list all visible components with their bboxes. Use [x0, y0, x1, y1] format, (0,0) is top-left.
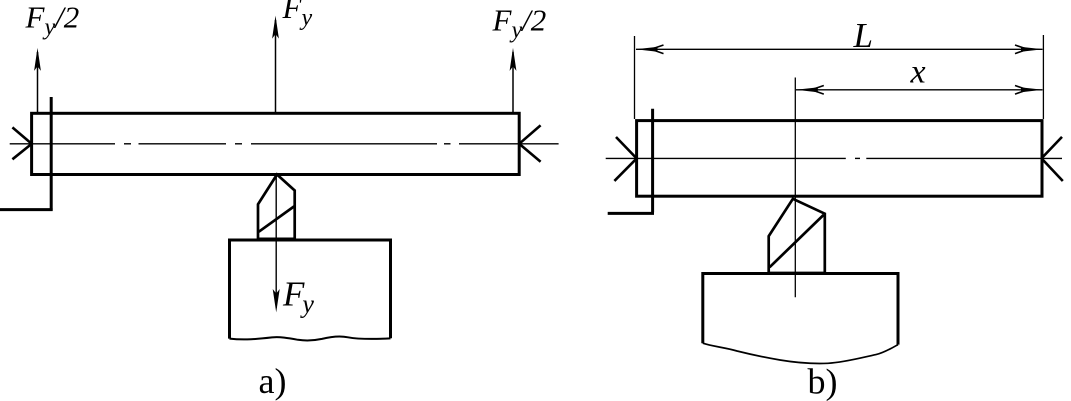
force arrow Fy/2 left — [34, 48, 41, 113]
dimension line x — [796, 86, 1043, 95]
dimension extension line left (L) — [634, 36, 636, 119]
force arrow Fy down — [273, 177, 280, 312]
dimension line L — [636, 45, 1044, 54]
left lathe center a — [12, 127, 32, 159]
svg-text:b): b) — [808, 362, 838, 401]
cutting tool a — [258, 175, 295, 239]
workpiece beam b — [637, 121, 1042, 197]
headstock support line a — [50, 97, 53, 211]
left lathe center b — [614, 137, 637, 181]
svg-text:x: x — [910, 54, 926, 91]
right lathe center a — [519, 125, 540, 162]
force arrow Fy/2 right — [510, 48, 517, 113]
support base line a — [0, 208, 53, 211]
tool hatch b — [770, 215, 824, 267]
dimension extension line right — [1042, 35, 1044, 119]
force arrow Fy center — [272, 16, 279, 114]
support base line b — [608, 212, 654, 215]
headstock support line b — [651, 109, 654, 213]
svg-text:L: L — [853, 16, 873, 55]
tool hatch a — [259, 206, 294, 231]
centerline b — [606, 157, 1062, 159]
cutting tool b — [769, 199, 825, 273]
tool post b — [703, 274, 898, 364]
right lathe center b — [1042, 137, 1063, 181]
centerline a — [10, 143, 559, 145]
workpiece beam a — [32, 113, 520, 174]
dimension extension line x (through tool) — [794, 78, 796, 298]
svg-text:a): a) — [259, 361, 287, 401]
tool post a — [230, 240, 391, 340]
